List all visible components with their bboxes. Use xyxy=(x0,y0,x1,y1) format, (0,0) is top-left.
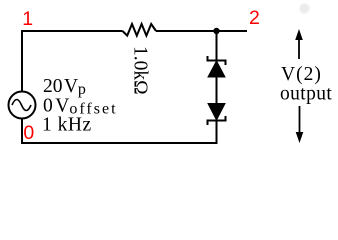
wire: left vertical from corner down to source xyxy=(21,30,23,91)
svg-text:output: output xyxy=(280,83,332,104)
wire: source bottom to bottom rail xyxy=(21,119,23,144)
svg-text:1.0kΩ: 1.0kΩ xyxy=(130,46,151,95)
wire: bottom zener to bottom rail xyxy=(216,121,218,143)
AC source V1 circle xyxy=(9,92,36,119)
svg-text:1: 1 xyxy=(22,8,33,30)
wire: top left horizontal from node 1 corner to resistor xyxy=(22,30,123,32)
zener diode D2 (bottom, pointing down) triangle xyxy=(208,104,225,121)
svg-text:1 kHz: 1 kHz xyxy=(42,115,92,136)
resistor R1 zigzag xyxy=(123,24,157,36)
wire: between the two zeners xyxy=(216,77,218,104)
zener diode D2 cathode bar with bent ends xyxy=(208,116,226,125)
svg-text:2: 2 xyxy=(249,7,260,29)
junction node dot xyxy=(213,28,219,34)
output down arrow xyxy=(299,106,301,138)
zener diode D1 (top, pointing up) cathode bar with bent ends xyxy=(208,56,226,65)
wire: resistor to node 2 xyxy=(156,30,247,32)
svg-text:0: 0 xyxy=(23,122,34,144)
wire: junction down to top zener xyxy=(216,31,218,60)
wire: bottom rail xyxy=(21,142,218,144)
AC source sine wave xyxy=(12,100,31,111)
output up arrow xyxy=(298,34,300,59)
zener diode D1 triangle xyxy=(208,61,225,77)
svg-text:V(2): V(2) xyxy=(281,64,322,85)
